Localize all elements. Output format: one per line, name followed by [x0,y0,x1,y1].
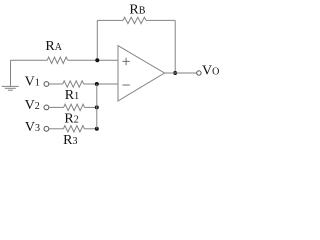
terminal VO [197,71,201,75]
svg-text:R1: R1 [65,88,79,103]
junction V2 row bus [95,105,99,109]
wire RA line left segment [11,59,48,61]
resistor RA [47,57,67,63]
op-amp U1 [118,46,165,101]
wire R2 to bus [85,106,97,108]
svg-text:RB: RB [129,2,145,17]
wire RB top line right segment [146,19,175,21]
wire feedback left vertical to + node [96,20,98,60]
wire V3 to R3 [49,128,64,130]
junction at + input node [95,58,99,62]
wire left vertical to ground [10,60,12,86]
wire feedback right vertical to output node [174,20,176,73]
resistor R2 [64,104,85,110]
ground [2,86,19,90]
wire output [165,72,197,74]
terminal V1 [44,82,49,87]
svg-text:R2: R2 [64,112,78,127]
terminal V3 [44,126,49,131]
svg-text:V3: V3 [25,120,40,135]
junction V3 row bus end [95,127,99,131]
junction V1 row bus [95,82,99,86]
wire R3 to bus [84,128,96,130]
resistor R1 [63,81,84,87]
wire V2 to R2 [49,106,64,108]
op-amp + pin mark [122,58,129,65]
wire input bus vertical [96,84,98,129]
wire RB feedback top line [97,19,123,21]
resistor RB [123,17,146,23]
svg-text:VO: VO [202,63,219,78]
terminal V2 [44,105,49,110]
svg-text:R3: R3 [63,133,77,148]
op-amp - pin mark [122,84,129,86]
wire RA line right segment to op-amp + input [68,59,118,61]
wire R1 to - input [84,83,118,85]
wire V1 to R1 [49,83,63,85]
svg-text:RA: RA [45,39,62,54]
resistor R3 [63,126,84,132]
svg-text:V1: V1 [25,74,40,89]
svg-text:V2: V2 [25,98,40,113]
junction at output node [173,71,177,75]
